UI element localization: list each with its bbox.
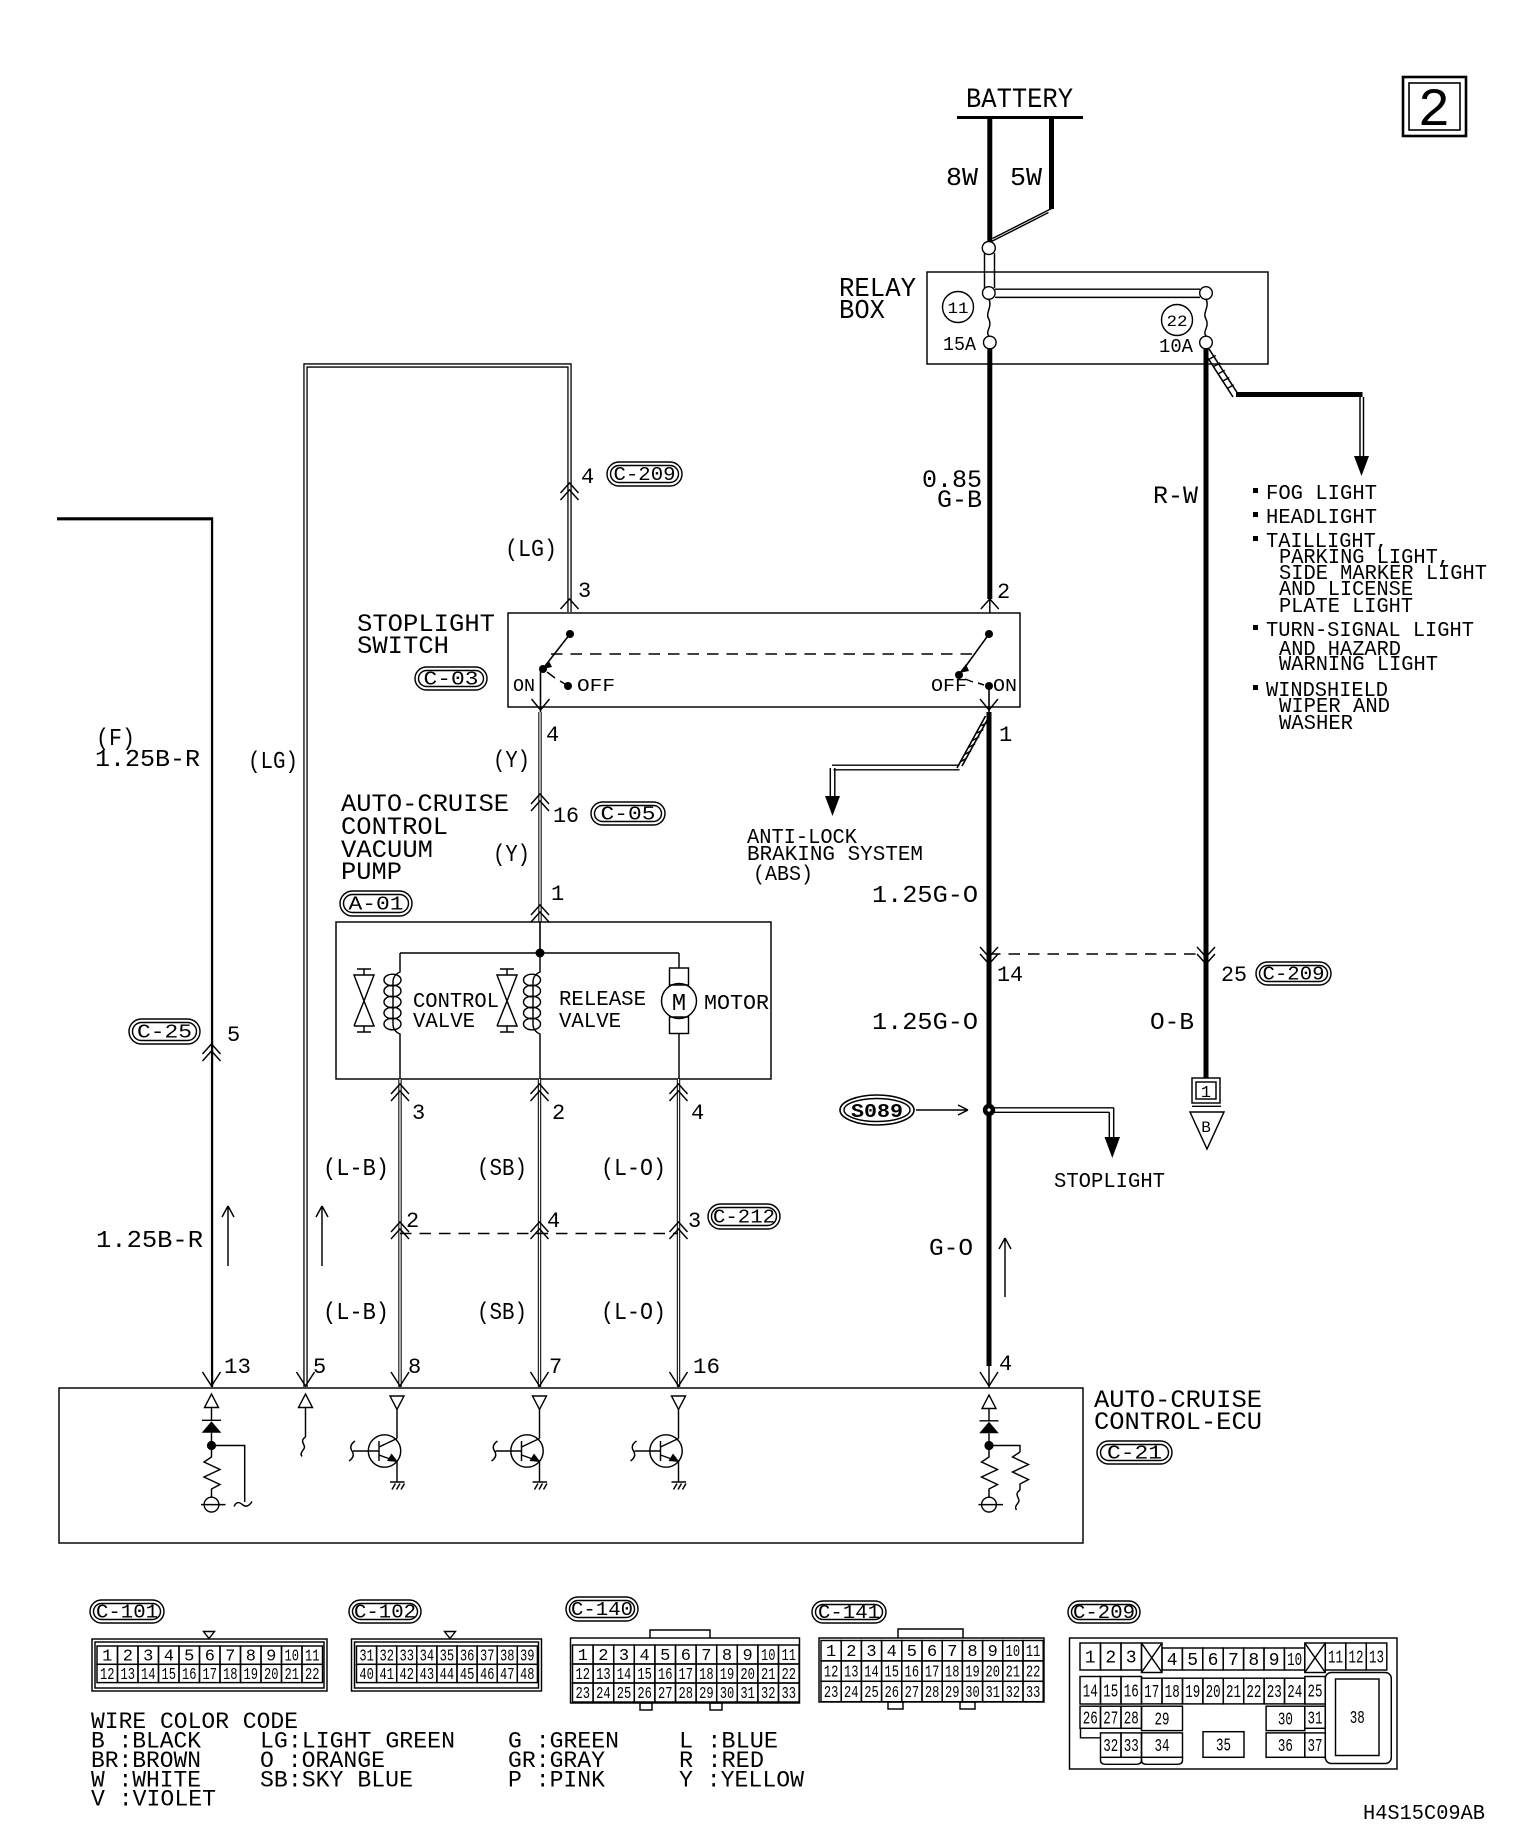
svg-text:9: 9 (988, 1643, 998, 1662)
svg-text:33: 33 (782, 1685, 797, 1704)
svg-text:16: 16 (1124, 1682, 1139, 1702)
svg-text:12: 12 (100, 1666, 115, 1685)
svg-text:8: 8 (722, 1647, 732, 1666)
svg-text:27: 27 (905, 1684, 920, 1703)
svg-text:4: 4 (999, 1352, 1012, 1377)
svg-text:27: 27 (1103, 1709, 1118, 1729)
svg-text:22: 22 (1026, 1664, 1041, 1683)
svg-text:5: 5 (1187, 1651, 1198, 1671)
svg-text:26: 26 (1083, 1709, 1098, 1729)
svg-text:12: 12 (576, 1666, 591, 1685)
svg-text:C-209: C-209 (1073, 1602, 1135, 1624)
svg-text:1: 1 (826, 1643, 836, 1662)
svg-text:4: 4 (581, 465, 594, 490)
svg-text:5: 5 (313, 1355, 326, 1380)
svg-text:2: 2 (1418, 81, 1450, 142)
svg-text:5W: 5W (1010, 163, 1042, 193)
svg-text:15: 15 (162, 1666, 177, 1685)
svg-text:10A: 10A (1159, 336, 1194, 358)
svg-text:14: 14 (141, 1666, 156, 1685)
svg-text:2: 2 (1105, 1649, 1116, 1669)
svg-text:VALVE: VALVE (559, 1011, 621, 1034)
svg-text:19: 19 (720, 1666, 735, 1685)
svg-text:32: 32 (1103, 1737, 1118, 1757)
svg-text:(L-B): (L-B) (323, 1156, 389, 1183)
svg-text:3: 3 (578, 579, 591, 604)
svg-text:29: 29 (1155, 1710, 1170, 1730)
svg-text:17: 17 (1144, 1683, 1159, 1703)
svg-text:32: 32 (1006, 1684, 1021, 1703)
svg-text:42: 42 (400, 1666, 415, 1685)
svg-text:19: 19 (1185, 1683, 1200, 1703)
svg-text:(SB): (SB) (477, 1156, 527, 1183)
svg-text:26: 26 (637, 1685, 652, 1704)
svg-text:18: 18 (223, 1666, 238, 1685)
svg-text:20: 20 (264, 1666, 279, 1685)
svg-text:(L-B): (L-B) (323, 1300, 389, 1327)
svg-text:3: 3 (688, 1209, 701, 1234)
svg-text:43: 43 (420, 1666, 435, 1685)
svg-text:35: 35 (1216, 1737, 1231, 1757)
svg-text:8: 8 (1248, 1651, 1259, 1671)
svg-text:24: 24 (596, 1685, 611, 1704)
svg-text:HEADLIGHT: HEADLIGHT (1266, 507, 1377, 530)
svg-text:21: 21 (761, 1666, 776, 1685)
svg-text:34: 34 (1155, 1737, 1170, 1757)
svg-text:22: 22 (782, 1666, 797, 1685)
svg-text:13: 13 (844, 1664, 859, 1683)
svg-text:P :PINK: P :PINK (508, 1767, 605, 1793)
svg-text:14: 14 (1083, 1682, 1098, 1702)
svg-text:33: 33 (1124, 1737, 1139, 1757)
svg-text:25: 25 (1221, 963, 1247, 988)
svg-text:12: 12 (824, 1664, 839, 1683)
svg-text:8: 8 (967, 1643, 977, 1662)
svg-text:O-B: O-B (1150, 1010, 1194, 1037)
svg-text:17: 17 (679, 1666, 694, 1685)
svg-text:18: 18 (699, 1666, 714, 1685)
svg-text:C-101: C-101 (96, 1602, 158, 1624)
svg-text:25: 25 (864, 1684, 879, 1703)
svg-text:8W: 8W (946, 163, 978, 193)
svg-text:(LG): (LG) (505, 537, 557, 564)
svg-text:48: 48 (520, 1666, 535, 1685)
svg-text:6: 6 (927, 1643, 937, 1662)
svg-text:21: 21 (1226, 1683, 1241, 1703)
svg-text:23: 23 (1267, 1683, 1282, 1703)
svg-text:(Y): (Y) (493, 842, 530, 869)
svg-text:14: 14 (864, 1664, 879, 1683)
svg-text:1: 1 (1201, 1084, 1211, 1103)
svg-text:20: 20 (1206, 1683, 1221, 1703)
svg-text:40: 40 (359, 1666, 374, 1685)
svg-text:47: 47 (500, 1666, 515, 1685)
svg-text:13: 13 (121, 1666, 136, 1685)
svg-text:R-W: R-W (1153, 482, 1198, 511)
svg-text:1: 1 (1085, 1649, 1096, 1669)
svg-text:9: 9 (742, 1647, 752, 1666)
svg-text:6: 6 (1208, 1651, 1219, 1671)
svg-text:21: 21 (285, 1666, 300, 1685)
svg-text:16: 16 (905, 1664, 920, 1683)
svg-text:20: 20 (740, 1666, 755, 1685)
svg-text:44: 44 (440, 1666, 455, 1685)
svg-text:19: 19 (965, 1664, 980, 1683)
svg-text:11: 11 (782, 1647, 797, 1666)
svg-text:STOPLIGHT: STOPLIGHT (1054, 1171, 1165, 1194)
svg-text:5: 5 (907, 1643, 917, 1662)
svg-text:31: 31 (740, 1685, 755, 1704)
svg-text:FOG LIGHT: FOG LIGHT (1266, 483, 1377, 506)
svg-text:15A: 15A (943, 334, 977, 356)
svg-text:1: 1 (578, 1647, 588, 1666)
svg-text:1.25G-O: 1.25G-O (872, 883, 978, 910)
svg-text:41: 41 (379, 1666, 394, 1685)
svg-text:29: 29 (945, 1684, 960, 1703)
svg-text:C-102: C-102 (354, 1602, 416, 1624)
svg-text:12: 12 (1349, 1649, 1364, 1669)
svg-text:G-O: G-O (929, 1236, 973, 1263)
svg-text:22: 22 (1167, 313, 1188, 331)
svg-text:38: 38 (1350, 1709, 1365, 1729)
svg-text:(SB): (SB) (477, 1300, 527, 1327)
svg-text:ON: ON (513, 677, 535, 697)
svg-text:20: 20 (985, 1664, 1000, 1683)
svg-text:18: 18 (945, 1664, 960, 1683)
svg-text:24: 24 (844, 1684, 859, 1703)
svg-text:C-212: C-212 (713, 1207, 775, 1229)
svg-text:4: 4 (546, 723, 559, 748)
svg-text:C-21: C-21 (1107, 1443, 1162, 1465)
svg-text:3: 3 (866, 1643, 876, 1662)
svg-text:C-03: C-03 (424, 669, 479, 691)
svg-text:Y :YELLOW: Y :YELLOW (679, 1767, 804, 1793)
svg-text:15: 15 (884, 1664, 899, 1683)
svg-text:11: 11 (1026, 1643, 1041, 1662)
svg-text:21: 21 (1006, 1664, 1021, 1683)
svg-text:16: 16 (182, 1666, 197, 1685)
svg-text:15: 15 (637, 1666, 652, 1685)
svg-text:C-141: C-141 (818, 1602, 880, 1624)
svg-text:BOX: BOX (839, 297, 885, 327)
svg-text:16: 16 (553, 804, 579, 829)
svg-text:23: 23 (576, 1685, 591, 1704)
svg-text:13: 13 (224, 1355, 251, 1380)
svg-text:25: 25 (617, 1685, 632, 1704)
svg-text:3: 3 (1126, 1649, 1137, 1669)
svg-text:M: M (672, 991, 686, 1018)
svg-text:H4S15C09AB: H4S15C09AB (1363, 1803, 1485, 1826)
svg-text:17: 17 (925, 1664, 940, 1683)
svg-text:4: 4 (1167, 1651, 1178, 1671)
svg-text:17: 17 (203, 1666, 218, 1685)
svg-text:30: 30 (1278, 1710, 1293, 1730)
svg-text:OFF: OFF (577, 677, 615, 697)
svg-text:28: 28 (679, 1685, 694, 1704)
svg-text:14: 14 (997, 963, 1023, 988)
svg-text:SB:SKY BLUE: SB:SKY BLUE (260, 1767, 413, 1793)
svg-text:11: 11 (948, 300, 969, 318)
svg-text:13: 13 (596, 1666, 611, 1685)
svg-text:16: 16 (658, 1666, 673, 1685)
svg-text:(LG): (LG) (248, 749, 298, 776)
svg-text:ON: ON (993, 677, 1017, 697)
svg-text:A-01: A-01 (349, 894, 404, 916)
svg-text:C-25: C-25 (137, 1022, 192, 1044)
svg-text:16: 16 (693, 1355, 720, 1380)
svg-text:(ABS): (ABS) (753, 864, 813, 887)
svg-text:7: 7 (549, 1355, 562, 1380)
svg-text:32: 32 (761, 1685, 776, 1704)
svg-text:45: 45 (460, 1666, 475, 1685)
svg-text:10: 10 (761, 1647, 776, 1666)
svg-text:27: 27 (658, 1685, 673, 1704)
svg-text:33: 33 (1026, 1684, 1041, 1703)
svg-text:PUMP: PUMP (341, 858, 402, 887)
svg-text:(L-O): (L-O) (601, 1300, 666, 1327)
svg-text:2: 2 (598, 1647, 608, 1666)
svg-text:6: 6 (681, 1647, 691, 1666)
svg-text:28: 28 (925, 1684, 940, 1703)
svg-text:SWITCH: SWITCH (357, 632, 449, 661)
svg-text:G-B: G-B (937, 486, 982, 515)
svg-text:2: 2 (846, 1643, 856, 1662)
svg-text:4: 4 (691, 1101, 704, 1126)
svg-text:7: 7 (947, 1643, 957, 1662)
svg-text:S089: S089 (851, 1101, 903, 1123)
svg-text:11: 11 (1328, 1649, 1343, 1669)
svg-text:CONTROL-ECU: CONTROL-ECU (1094, 1408, 1262, 1437)
svg-text:RELEASE: RELEASE (559, 989, 646, 1012)
svg-text:3: 3 (412, 1101, 425, 1126)
svg-text:2: 2 (552, 1101, 565, 1126)
svg-text:15: 15 (1103, 1682, 1118, 1702)
svg-text:1.25B-R: 1.25B-R (95, 747, 200, 774)
svg-text:C-05: C-05 (601, 804, 656, 826)
svg-text:V :VIOLET: V :VIOLET (91, 1787, 216, 1813)
svg-text:MOTOR: MOTOR (704, 993, 769, 1016)
svg-text:1.25B-R: 1.25B-R (96, 1228, 203, 1255)
svg-text:WARNING LIGHT: WARNING LIGHT (1279, 654, 1438, 677)
svg-text:28: 28 (1124, 1709, 1139, 1729)
svg-text:22: 22 (305, 1666, 320, 1685)
svg-text:7: 7 (701, 1647, 711, 1666)
svg-text:26: 26 (884, 1684, 899, 1703)
svg-text:46: 46 (480, 1666, 495, 1685)
svg-text:(Y): (Y) (493, 748, 530, 775)
svg-text:1.25G-O: 1.25G-O (872, 1010, 978, 1037)
svg-text:C-209: C-209 (614, 464, 676, 486)
svg-text:2: 2 (997, 580, 1010, 605)
svg-text:5: 5 (227, 1023, 240, 1048)
svg-text:4: 4 (639, 1647, 649, 1666)
svg-text:18: 18 (1165, 1683, 1180, 1703)
svg-text:14: 14 (617, 1666, 632, 1685)
svg-text:30: 30 (965, 1684, 980, 1703)
svg-text:10: 10 (1006, 1643, 1021, 1662)
svg-text:13: 13 (1369, 1649, 1384, 1669)
svg-text:7: 7 (1228, 1651, 1239, 1671)
svg-text:23: 23 (824, 1684, 839, 1703)
svg-text:B: B (1201, 1119, 1211, 1137)
svg-text:C-140: C-140 (571, 1599, 633, 1621)
svg-text:BATTERY: BATTERY (966, 85, 1073, 116)
svg-text:1: 1 (551, 882, 564, 907)
svg-text:22: 22 (1246, 1683, 1261, 1703)
svg-text:37: 37 (1308, 1737, 1323, 1757)
svg-text:5: 5 (660, 1647, 670, 1666)
svg-text:4: 4 (547, 1209, 560, 1234)
svg-text:PLATE LIGHT: PLATE LIGHT (1279, 596, 1413, 619)
svg-text:24: 24 (1287, 1683, 1302, 1703)
svg-text:3: 3 (619, 1647, 629, 1666)
svg-text:WASHER: WASHER (1279, 713, 1353, 736)
svg-text:36: 36 (1278, 1737, 1293, 1757)
svg-text:VALVE: VALVE (413, 1011, 475, 1034)
svg-text:8: 8 (408, 1355, 421, 1380)
svg-text:30: 30 (720, 1685, 735, 1704)
svg-text:31: 31 (1308, 1709, 1323, 1729)
svg-text:1: 1 (999, 723, 1012, 748)
svg-text:29: 29 (699, 1685, 714, 1704)
svg-text:10: 10 (1287, 1651, 1302, 1671)
svg-text:(L-O): (L-O) (601, 1156, 666, 1183)
svg-text:31: 31 (985, 1684, 1000, 1703)
svg-text:C-209: C-209 (1263, 964, 1325, 986)
svg-text:OFF: OFF (931, 677, 967, 697)
svg-text:9: 9 (1269, 1651, 1280, 1671)
svg-text:4: 4 (887, 1643, 897, 1662)
svg-text:25: 25 (1308, 1682, 1323, 1702)
svg-text:19: 19 (244, 1666, 259, 1685)
